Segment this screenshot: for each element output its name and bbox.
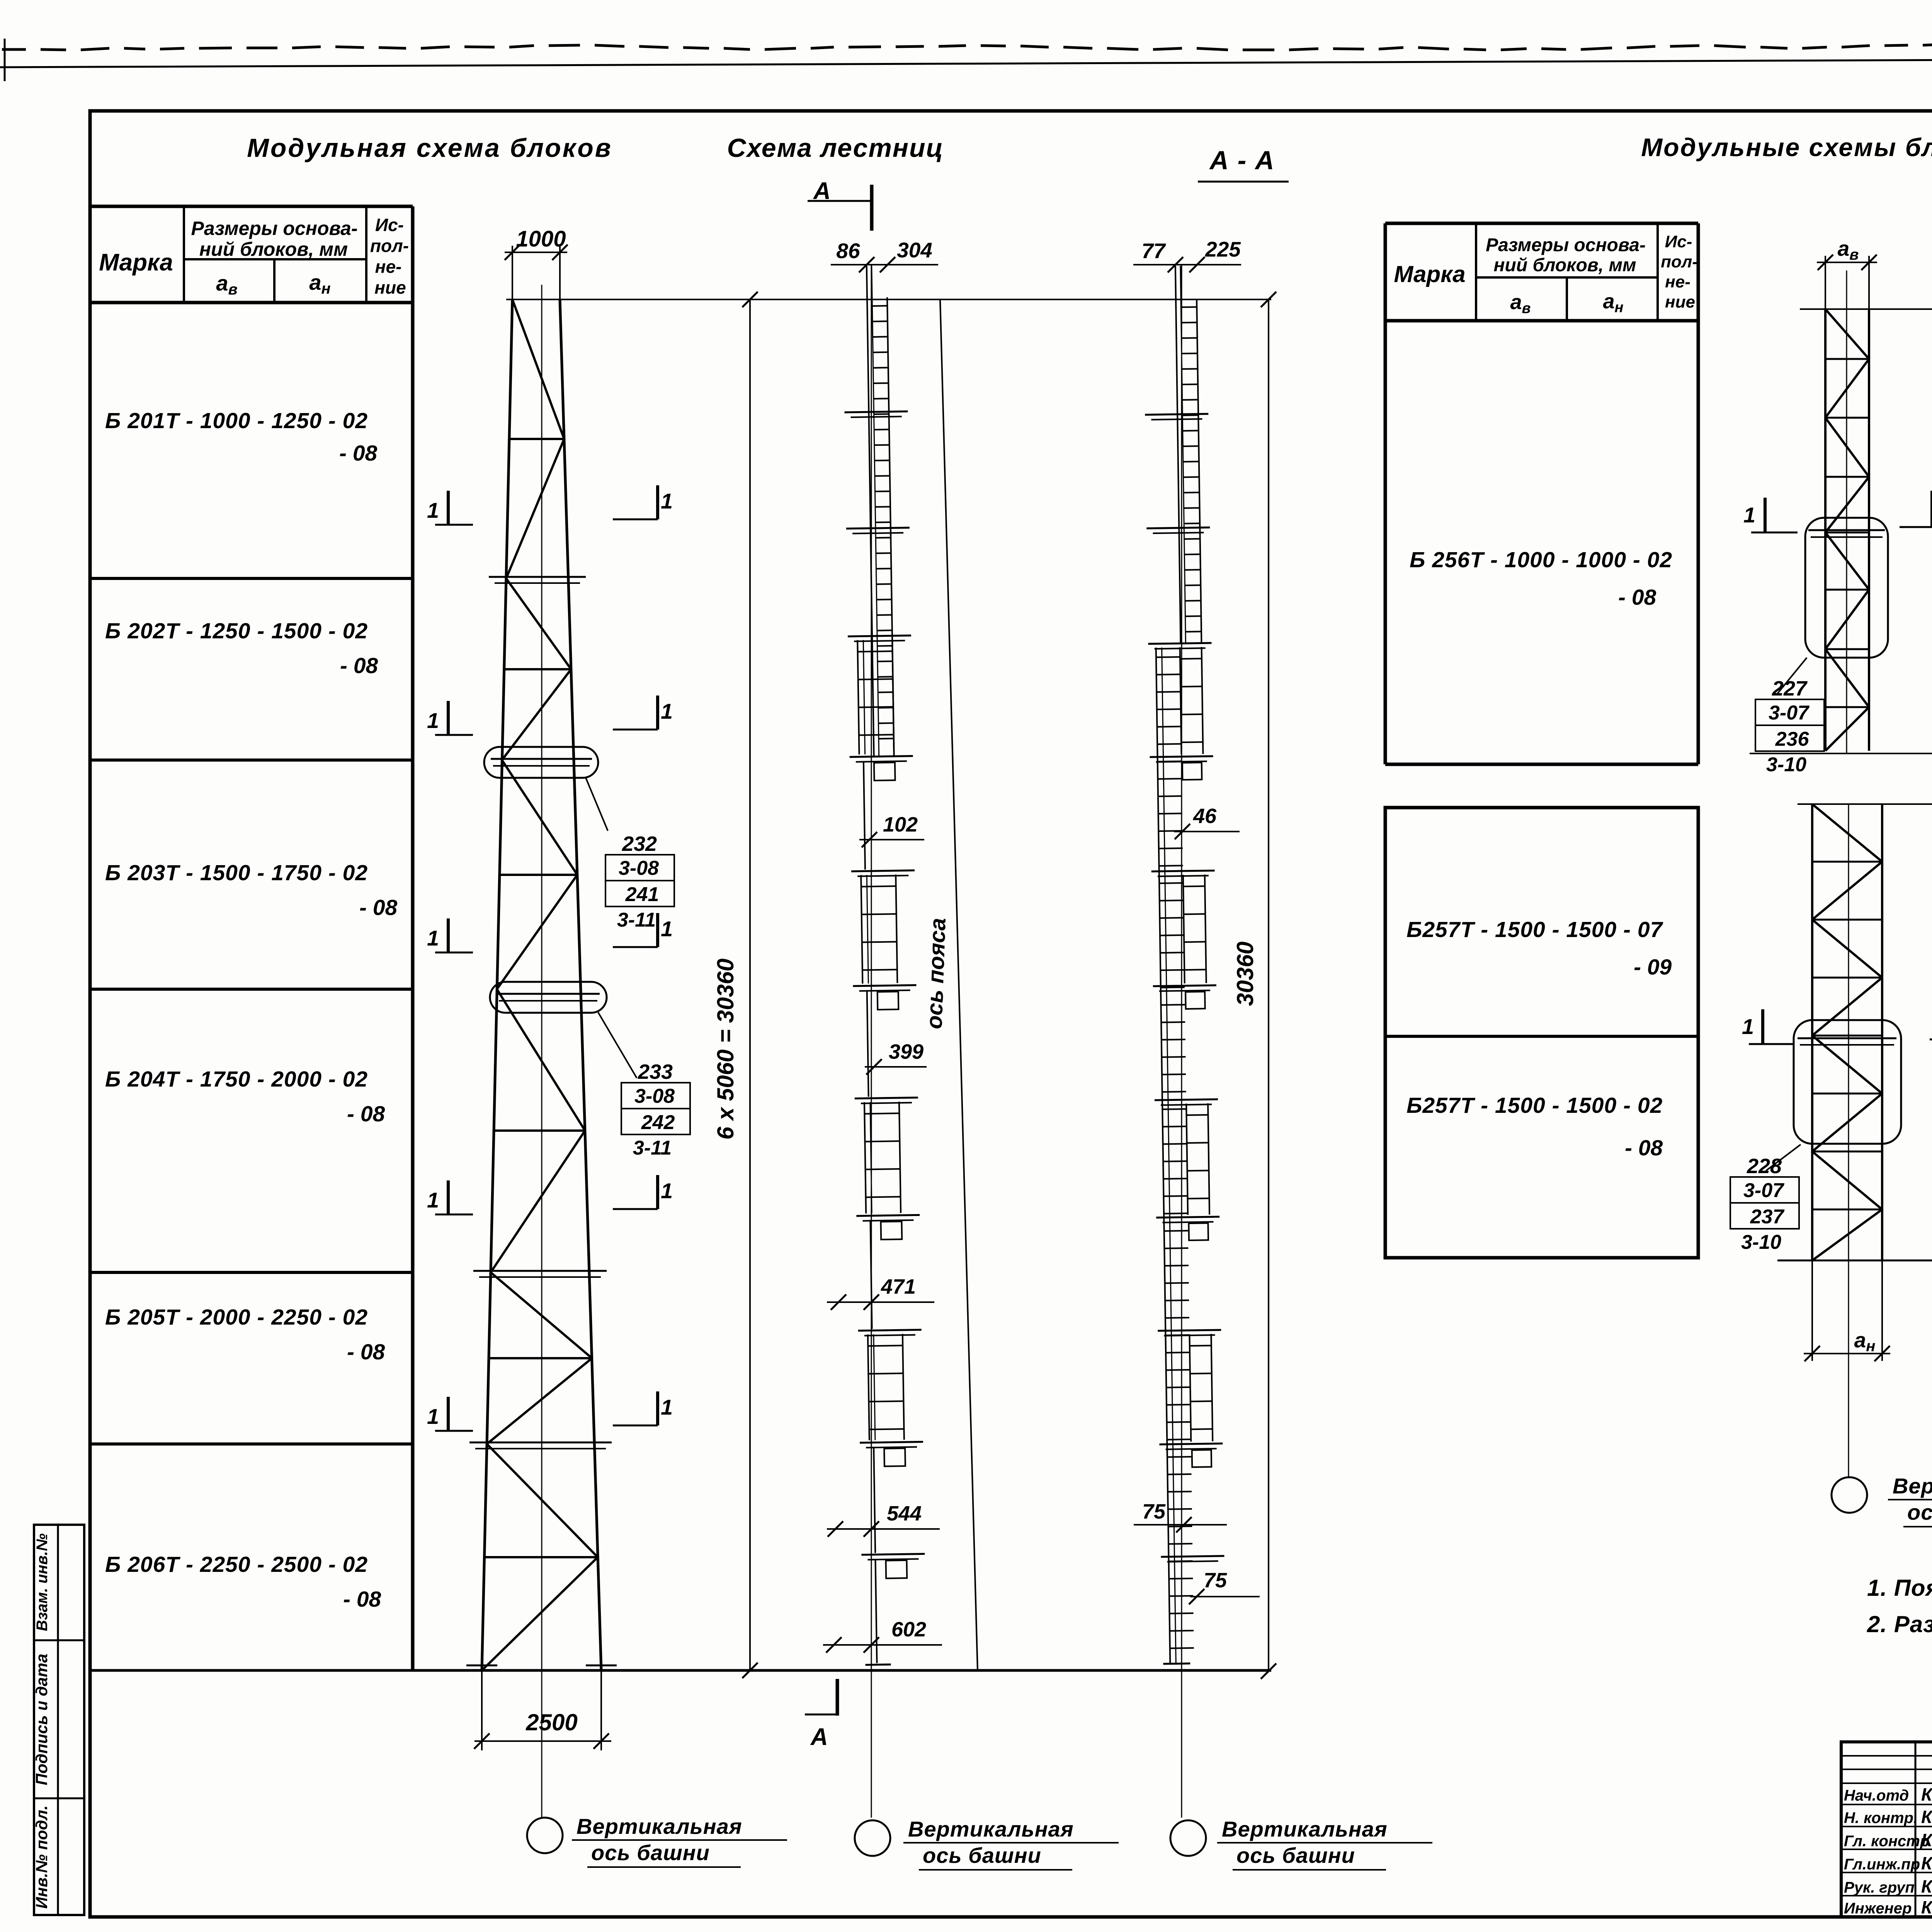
table bottom and tower1 base line <box>91 1669 1271 1672</box>
svg-text:Гл. констр: Гл. констр <box>1844 1833 1929 1850</box>
svg-text:1: 1 <box>661 699 673 723</box>
svg-text:46: 46 <box>1193 804 1217 828</box>
tower1 stadium joint outline 1 <box>484 747 598 778</box>
svg-text:Кондра: Кондра <box>1921 1830 1932 1850</box>
tick on reference line at 30360 dim <box>742 292 758 307</box>
svg-text:- 08: - 08 <box>340 653 378 678</box>
svg-text:3-07: 3-07 <box>1743 1179 1784 1202</box>
svg-text:1. Пояснительную записку с: 1. Пояснительную записку см. Выпуск 0. <box>1867 1575 1932 1601</box>
stamp column inner divider <box>57 1525 59 1915</box>
tower2 right chord <box>1868 309 1870 751</box>
svg-text:не-: не- <box>1665 272 1690 291</box>
svg-text:Модульная схема блоков: Модульная схема блоков <box>247 133 612 163</box>
tick at ladder dim bottom <box>1261 1663 1276 1679</box>
svg-text:Марка: Марка <box>99 249 173 276</box>
title block row line y=4786 <box>1841 1849 1932 1850</box>
svg-text:Ис-: Ис- <box>1665 232 1692 251</box>
ladder1 dim 471 <box>827 1301 934 1303</box>
tower1 block 4 diagonal upper <box>497 989 585 1131</box>
svg-text:Рук. груп: Рук. груп <box>1844 1879 1915 1896</box>
base line of right group <box>1777 1260 1932 1262</box>
tower2 callout 227/3-07/236/3-10 <box>1777 658 1807 694</box>
svg-text:1000: 1000 <box>516 226 566 252</box>
tower1 block 2 diagonal lower <box>502 669 571 760</box>
tower1 block 4 horizontal strut <box>494 1129 585 1132</box>
tower1 stadium joint flange 1 <box>491 758 592 760</box>
ladder overall dim line 30360 <box>1268 299 1269 1670</box>
ladder2 dim 75 upper <box>1134 1524 1227 1526</box>
svg-text:1: 1 <box>427 926 439 950</box>
svg-text:602: 602 <box>891 1618 926 1641</box>
left table row divider 5 <box>91 1442 413 1446</box>
tower3 axis line <box>1848 804 1849 1477</box>
svg-text:242: 242 <box>641 1111 675 1134</box>
left table header col Ispolnenie <box>365 206 367 303</box>
ladder2 vertical axis circle and label <box>1170 1820 1206 1856</box>
title block row line y=4906 <box>1841 1895 1932 1896</box>
tower1 callout 233/3-08/242/3-11 <box>598 1012 637 1078</box>
svg-text:пол-: пол- <box>1661 252 1698 271</box>
svg-text:Вертикальная: Вертикальная <box>577 1814 742 1838</box>
left table row divider 4 <box>91 1271 413 1274</box>
svg-text:77: 77 <box>1141 239 1166 263</box>
ladder1 dim 399 <box>865 1066 927 1068</box>
svg-text:А - А: А - А <box>1209 146 1275 175</box>
svg-text:ось башни: ось башни <box>591 1840 710 1865</box>
svg-text:399: 399 <box>889 1040 923 1063</box>
svg-text:ний блоков, мм: ний блоков, мм <box>199 238 348 260</box>
tower2 left chord <box>1824 309 1827 751</box>
tick on reference line at ladder section dim <box>1261 292 1276 307</box>
torn paper edge, top dashed wavy line <box>2 41 1932 50</box>
tower2 stadium joint outline <box>1805 518 1888 658</box>
right table box1 right <box>1697 321 1700 764</box>
tower1 block 2 diagonal upper <box>506 578 571 669</box>
tower3 dim an extension left <box>1811 1260 1813 1361</box>
tower1 block 1 diagonal upper <box>512 299 564 439</box>
reference line at tower top (left half) <box>506 299 1271 300</box>
svg-text:228: 228 <box>1747 1155 1782 1178</box>
svg-text:- 08: - 08 <box>359 895 398 920</box>
tower1 overall dim line 6x5060=30360 <box>749 299 751 1670</box>
tower1 flange joint at 3293 <box>473 1270 607 1272</box>
svg-text:Б257Т - 1500 - 1500 - 07: Б257Т - 1500 - 1500 - 07 <box>1406 917 1663 942</box>
svg-text:А: А <box>810 1724 828 1750</box>
title block outline <box>1841 1742 1932 1917</box>
tower1 dim 1000 extension right <box>559 246 561 299</box>
svg-text:1: 1 <box>1743 503 1755 527</box>
left table header sub divider <box>184 258 366 260</box>
tower3 lattice bracing <box>1812 804 1882 862</box>
right table header top <box>1385 222 1698 225</box>
right table box1 bottom <box>1385 763 1698 766</box>
tower3 callout 228/3-07/237/3-10 <box>1766 1145 1801 1171</box>
right table header left <box>1384 223 1387 321</box>
right table header bottom <box>1385 319 1698 323</box>
svg-text:3-10: 3-10 <box>1741 1231 1781 1253</box>
svg-text:Гл.инж.пр: Гл.инж.пр <box>1844 1856 1920 1873</box>
svg-text:Вертикальная: Вертикальная <box>908 1817 1074 1841</box>
reference line at towers top (right half) <box>1800 308 1932 310</box>
right table header sub divider <box>1476 276 1658 279</box>
ladder2 structure (section A-A) <box>1143 265 1226 1664</box>
svg-text:- 08: - 08 <box>1618 585 1656 610</box>
svg-text:Инженер: Инженер <box>1844 1900 1912 1917</box>
svg-text:86: 86 <box>836 239 860 263</box>
svg-text:1: 1 <box>427 708 439 733</box>
tower1 block 4 diagonal lower <box>491 1131 585 1272</box>
tower1 block 3 horizontal strut <box>500 874 577 876</box>
outer sheet border, left top stub <box>4 39 6 81</box>
svg-text:- 09: - 09 <box>1634 955 1672 980</box>
svg-text:3-08: 3-08 <box>634 1085 675 1107</box>
left table row divider 3 <box>91 988 413 991</box>
left table outer right edge <box>411 206 415 1670</box>
svg-text:Ис-: Ис- <box>375 215 404 235</box>
tower3 dim an extension right <box>1881 1260 1883 1361</box>
tower1 dim 2500 extension left <box>481 1670 483 1750</box>
svg-text:3-10: 3-10 <box>1766 753 1806 776</box>
stamp column divider 2 <box>34 1798 84 1799</box>
tower2 dim av extension left <box>1825 256 1826 309</box>
tower1 base cap left <box>466 1665 497 1667</box>
right table header col Ispolnenie <box>1656 223 1659 321</box>
svg-text:544: 544 <box>887 1502 922 1525</box>
tower3 section mark 1-1 right <box>1930 1039 1932 1041</box>
svg-text:- 08: - 08 <box>343 1587 381 1612</box>
right table box2 (B257T) outline <box>1385 808 1698 1258</box>
svg-text:Б 206Т - 2250 - 2500 - 02: Б 206Т - 2250 - 2500 - 02 <box>105 1552 368 1577</box>
tower2 dim av extension right <box>1868 256 1870 309</box>
svg-text:1: 1 <box>427 498 439 522</box>
stamp column box <box>34 1525 84 1915</box>
tower2 section mark 1-1 right <box>1900 526 1932 528</box>
tower1 axis line <box>541 285 543 1818</box>
tower1 block 5 diagonal lower <box>487 1358 592 1444</box>
tower3 right chord <box>1881 804 1883 1260</box>
svg-text:30360: 30360 <box>1232 942 1258 1006</box>
svg-text:Б 256Т - 1000 - 1000 - 02: Б 256Т - 1000 - 1000 - 02 <box>1410 548 1672 572</box>
tower1 block 5 diagonal upper <box>491 1272 592 1358</box>
tower1 callout 232/3-08/241/3-11 <box>586 778 608 831</box>
ladder2 top dim 77/225 <box>1133 264 1241 265</box>
tower1 block 6 diagonal upper <box>487 1444 598 1557</box>
tower3 dim line an <box>1804 1353 1890 1354</box>
svg-text:Размеры основа-: Размеры основа- <box>191 218 357 239</box>
svg-text:Б 203Т - 1500 - 1750 - 02: Б 203Т - 1500 - 1750 - 02 <box>105 861 368 885</box>
left table header bottom <box>91 301 413 304</box>
left table header sub col av/an <box>273 259 276 303</box>
right table box1 (B256T) left <box>1384 321 1387 764</box>
right table header col Marka <box>1475 223 1477 321</box>
tower1 flange joint at 1497 <box>489 576 586 578</box>
svg-text:Размеры основа-: Размеры основа- <box>1486 235 1646 255</box>
ladder1 dim 544 <box>827 1528 940 1530</box>
ladder2 axis line <box>1181 265 1182 1818</box>
svg-text:Ковтюх: Ковтюх <box>1921 1853 1932 1873</box>
svg-text:Подпись и дата: Подпись и дата <box>32 1654 51 1785</box>
ladder1 axis line <box>871 265 872 1818</box>
ladder1 section mark A bottom <box>805 1714 838 1716</box>
svg-text:Нач.отд: Нач.отд <box>1844 1787 1909 1804</box>
heading underline A-A left <box>1198 181 1289 183</box>
right table box2 divider <box>1385 1035 1698 1038</box>
left table row divider 1 <box>91 577 413 580</box>
title block row line y=4579 <box>1841 1769 1932 1770</box>
tower1 block 6 diagonal lower <box>482 1557 598 1670</box>
line at towers joint level (right half) <box>1750 753 1932 754</box>
svg-text:2. Разрез 1-1 см. 05КМ: 2. Разрез 1-1 см. 05КМ <box>1867 1611 1932 1637</box>
svg-text:1: 1 <box>661 489 673 513</box>
svg-text:75: 75 <box>1204 1569 1227 1592</box>
svg-text:1: 1 <box>661 1395 673 1419</box>
svg-text:Б 204Т - 1750 - 2000 - 02: Б 204Т - 1750 - 2000 - 02 <box>105 1067 368 1092</box>
svg-text:1: 1 <box>1742 1014 1754 1039</box>
svg-text:Киселев: Киселев <box>1921 1784 1932 1804</box>
svg-text:Б257Т - 1500 - 1500 - 02: Б257Т - 1500 - 1500 - 02 <box>1406 1093 1663 1118</box>
svg-text:Б 205Т - 2000 - 2250 - 02: Б 205Т - 2000 - 2250 - 02 <box>105 1305 368 1330</box>
tower3 stadium joint outline <box>1794 1020 1901 1144</box>
tower1 stadium joint outline 2 <box>490 982 607 1013</box>
ladder1 dim 602 <box>823 1644 942 1646</box>
title block row line y=4544 <box>1841 1755 1932 1757</box>
tower1 block 1 diagonal lower <box>506 439 564 578</box>
tower3 left chord <box>1811 804 1813 1260</box>
svg-text:ние: ние <box>374 277 406 298</box>
svg-text:2500: 2500 <box>526 1709 577 1735</box>
tower1 vertical axis circle and label <box>527 1818 563 1853</box>
svg-text:102: 102 <box>883 813 918 836</box>
svg-text:471: 471 <box>881 1275 916 1298</box>
tower1 block 1 horizontal strut <box>509 438 564 440</box>
title block row line y=4670 <box>1841 1804 1932 1805</box>
svg-text:Н. контр.: Н. контр. <box>1844 1810 1918 1827</box>
svg-text:236: 236 <box>1775 728 1810 750</box>
svg-text:3-07: 3-07 <box>1769 702 1810 724</box>
ladder1 dim 102 <box>859 839 924 840</box>
ladder2 dim 75 lower <box>1190 1596 1260 1597</box>
tower1 dim 1000 extension left <box>512 246 513 299</box>
tower1 dim line 1000 <box>505 252 567 253</box>
svg-text:Марка: Марка <box>1394 261 1465 287</box>
svg-text:- 08: - 08 <box>347 1102 385 1126</box>
svg-text:не-: не- <box>375 257 402 277</box>
tower1 block 3 diagonal upper <box>502 760 577 875</box>
chord axis line os poyasa (inclined) <box>940 299 978 1670</box>
ladder1 structure (Shema lestnic) <box>842 265 927 1665</box>
title block row line y=4615 <box>1841 1782 1932 1784</box>
tower1 stadium joint flange 2 <box>497 993 600 995</box>
svg-text:Вертикальная: Вертикальная <box>1222 1817 1388 1841</box>
tower2 stadium flange <box>1808 529 1885 531</box>
svg-text:3-11: 3-11 <box>633 1137 672 1159</box>
tower1 block 6 horizontal strut <box>485 1556 598 1558</box>
svg-text:Б 201Т - 1000 - 1250 - 02: Б 201Т - 1000 - 1250 - 02 <box>105 408 368 433</box>
tower2 dim line av <box>1817 262 1877 263</box>
svg-text:Модульные схемы блоков: Модульные схемы блоков <box>1641 133 1932 162</box>
svg-text:225: 225 <box>1205 237 1241 261</box>
ladder1 vertical axis circle and label <box>855 1820 890 1856</box>
svg-text:Вертикальная: Вертикальная <box>1893 1474 1932 1498</box>
right table header right <box>1697 223 1700 321</box>
svg-text:304: 304 <box>897 238 932 262</box>
svg-text:Схема лестниц: Схема лестниц <box>727 133 944 163</box>
svg-text:1: 1 <box>661 1179 673 1203</box>
tower1 block 5 horizontal strut <box>489 1357 592 1359</box>
svg-text:6 х 5060 = 30360: 6 х 5060 = 30360 <box>713 959 738 1140</box>
svg-text:Кожинова: Кожинова <box>1921 1876 1932 1896</box>
tower1 block 2 horizontal strut <box>504 668 571 670</box>
svg-text:пол-: пол- <box>370 236 409 256</box>
tower3 vertical axis circle and label <box>1832 1477 1867 1513</box>
svg-text:Взам. инв.№: Взам. инв.№ <box>34 1533 51 1631</box>
tower2 lattice bracing <box>1825 309 1869 359</box>
ladder2 dim 46 <box>1174 831 1240 832</box>
tick at 30360 dim bottom <box>742 1663 758 1678</box>
svg-text:- 08: - 08 <box>347 1340 385 1364</box>
tower1 dim line 2500 <box>474 1740 611 1742</box>
svg-text:ние: ние <box>1665 293 1695 311</box>
svg-text:ось башни: ось башни <box>923 1843 1041 1867</box>
svg-text:ось башни: ось башни <box>1236 1843 1355 1867</box>
tower1 left chord <box>482 299 512 1670</box>
svg-text:75: 75 <box>1142 1500 1166 1523</box>
tower1 block 3 diagonal lower <box>497 875 577 989</box>
svg-text:Кривошлык: Кривошлык <box>1921 1897 1932 1917</box>
svg-text:1: 1 <box>427 1188 439 1212</box>
ladder1 top dim 86/304 <box>831 264 938 265</box>
svg-text:ось башни: ось башни <box>1907 1500 1932 1524</box>
svg-text:1: 1 <box>661 917 673 941</box>
svg-text:3-08: 3-08 <box>619 857 659 879</box>
svg-text:Б 202Т - 1250 - 1500 - 02: Б 202Т - 1250 - 1500 - 02 <box>105 619 368 643</box>
svg-text:3-11: 3-11 <box>617 909 656 931</box>
svg-text:Инв.№ подл.: Инв.№ подл. <box>32 1805 51 1908</box>
left table row divider 2 <box>91 759 413 762</box>
svg-text:241: 241 <box>625 883 659 906</box>
right table header sub col av/an <box>1566 277 1568 321</box>
title block row line y=4727 <box>1841 1826 1932 1827</box>
svg-text:ний блоков, мм: ний блоков, мм <box>1494 255 1636 276</box>
svg-text:- 08: - 08 <box>1625 1136 1663 1160</box>
svg-text:Кондра: Кондра <box>1921 1807 1932 1827</box>
svg-text:1: 1 <box>427 1404 439 1429</box>
outer sheet border, top line <box>0 57 1932 67</box>
svg-text:232: 232 <box>622 832 657 855</box>
svg-text:227: 227 <box>1772 677 1808 700</box>
left table top edge <box>91 205 413 208</box>
tower1 flange joint at 3737 <box>469 1442 612 1444</box>
line at tower3 top (right half) <box>1798 803 1932 805</box>
tower1 base cap right <box>586 1665 617 1667</box>
tower2 axis line <box>1846 270 1847 753</box>
tower1 dim 2500 extension right <box>600 1670 602 1750</box>
title block col labels <box>1915 1742 1917 1917</box>
tower3 stadium flange <box>1798 1037 1896 1039</box>
svg-text:- 08: - 08 <box>339 441 378 466</box>
left table header col Marka <box>183 206 185 303</box>
svg-text:237: 237 <box>1750 1206 1785 1228</box>
tower1 right chord <box>560 299 601 1670</box>
svg-text:ось пояса: ось пояса <box>922 917 951 1029</box>
svg-text:233: 233 <box>638 1060 673 1083</box>
stamp column divider 1 <box>34 1639 84 1641</box>
title block row line y=4846 <box>1841 1872 1932 1873</box>
